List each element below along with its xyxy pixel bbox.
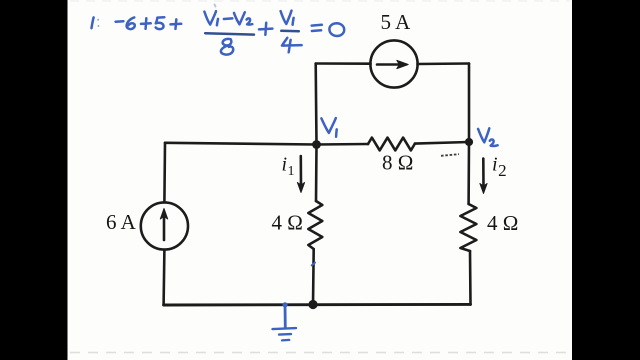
resistor R1 4ohm middle zigzag [308, 201, 322, 249]
resistor R2 4ohm right zigzag [460, 204, 476, 251]
black bar right [572, 0, 640, 360]
wire middle rail resistor to V2 [415, 142, 469, 144]
svg-text:5 A: 5 A [381, 10, 412, 34]
svg-text:4 Ω: 4 Ω [487, 211, 518, 235]
node label V2 [478, 128, 489, 142]
print dashes left of V2 [441, 154, 459, 156]
eq denominator 4 [282, 38, 302, 53]
wire bottom-right vertical [469, 251, 472, 304]
current source I2 5A circle [370, 40, 417, 87]
node ground junction dot [308, 300, 317, 309]
eq V1 numerator (second fraction) [281, 11, 292, 24]
arrow current i2 (down) [482, 159, 485, 188]
wire top rail left of 5A source [316, 62, 371, 65]
wire top-left vertical (top corner down to node V1) [314, 64, 317, 145]
eq digit 5 [156, 17, 165, 29]
arrow current i1 (down) [299, 156, 302, 186]
ground bar 3 [282, 339, 289, 342]
blue tick on middle branch [312, 263, 315, 266]
ground bar 1 [273, 328, 297, 329]
eq zero [329, 23, 344, 36]
eq plus 2 [171, 19, 182, 29]
arrow of 5A source (right) [377, 63, 400, 66]
ground stem [284, 305, 287, 328]
handwritten blue ink [92, 5, 498, 341]
eq V2 numerator [234, 12, 245, 24]
eq denominator 8 [223, 39, 232, 46]
wire bottom rail [164, 303, 471, 307]
node label V1 [321, 118, 335, 133]
eq equals [312, 25, 322, 31]
svg-text:4 Ω: 4 Ω [272, 211, 303, 235]
wire left vertical above 6A source [163, 143, 166, 203]
current source I1 6A circle [141, 202, 188, 249]
eq minus between V1 V2 [224, 17, 232, 20]
wire top rail right of 5A source [418, 62, 470, 65]
wire middle resistor to bottom rail [312, 249, 315, 305]
eq V1 numerator (first fraction) [204, 11, 216, 24]
svg-text:8 Ω: 8 Ω [382, 151, 413, 175]
ground stem top blob [282, 302, 287, 307]
bottom page edge (faint) [70, 352, 570, 354]
eq plus 3 [259, 23, 272, 35]
wire middle rail V1 to 8-ohm resistor [317, 143, 369, 146]
node V1 junction dot [312, 140, 321, 149]
wire V1 down to middle resistor [315, 145, 318, 202]
svg-text:6 A: 6 A [106, 210, 137, 234]
eq colon [97, 20, 99, 27]
eq plus 1 [141, 18, 151, 29]
eq minus 6 sign [116, 20, 124, 23]
resistor R 8ohm zigzag [368, 138, 415, 151]
node V2 junction dot [465, 138, 473, 146]
blue smudge top edge [215, 5, 216, 7]
black bar left [0, 0, 68, 360]
top page edge (faint) [70, 0, 570, 2]
eq fraction bar 2 [281, 30, 299, 33]
wire middle rail left (left corner to V1) [165, 143, 317, 145]
paper background [68, 0, 573, 360]
eq step number 1 [92, 17, 94, 28]
wire right vertical top (top corner to V2) [468, 64, 471, 142]
eq fraction bar 1 [205, 33, 254, 34]
wire V2 down to right resistor [467, 142, 470, 204]
ground bar 2 [279, 333, 291, 336]
wire left vertical below 6A source [162, 250, 165, 305]
eq digit 6 [127, 17, 135, 29]
arrow of 6A source (up) [163, 215, 166, 240]
